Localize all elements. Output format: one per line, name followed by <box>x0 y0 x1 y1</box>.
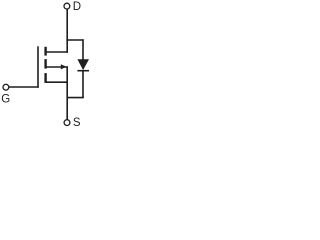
transistor Q1 gate bar <box>37 46 39 87</box>
terminal S circle <box>64 120 70 126</box>
transistor Q1 channel segment middle <box>44 59 46 69</box>
wire drain vertical from D terminal down to drain stub <box>66 9 68 52</box>
diode D1 cathode bar <box>77 70 89 72</box>
wire diode branch lower vertical <box>82 71 84 98</box>
wire source stub horizontal with arrow from channel to corner <box>46 66 68 68</box>
svg-text:D: D <box>73 1 81 13</box>
svg-text:S: S <box>73 117 81 129</box>
wire diode return horizontal to source line <box>66 97 83 99</box>
wire source rail horizontal from channel bottom to source line <box>46 81 68 83</box>
wire diode branch upper vertical <box>82 39 84 59</box>
arrow of source stub pointing right <box>61 64 67 69</box>
wire gate horizontal from G terminal to gate bar <box>9 86 39 88</box>
svg-text:G: G <box>1 94 10 106</box>
diode D1 anode triangle pointing down <box>77 59 89 70</box>
wire diode tap horizontal from drain line to diode branch <box>66 39 83 41</box>
transistor Q1 channel segment bottom <box>44 73 46 83</box>
wire source vertical from stub corner down to S terminal <box>66 66 68 119</box>
transistor Q1 channel segment top <box>44 47 46 56</box>
wire drain stub horizontal from channel to drain line <box>46 51 68 53</box>
terminal D circle <box>64 3 70 9</box>
terminal G circle <box>3 84 9 90</box>
